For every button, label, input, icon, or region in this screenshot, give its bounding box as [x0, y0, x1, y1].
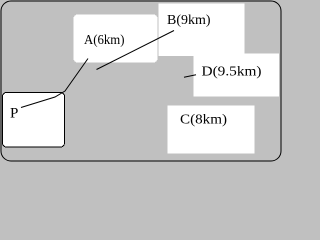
- svg-text:B(9km): B(9km): [167, 13, 211, 28]
- svg-text:C(8km): C(8km): [180, 113, 227, 128]
- svg-text:A(6km): A(6km): [84, 33, 125, 48]
- svg-text:D(9.5km): D(9.5km): [202, 65, 262, 80]
- svg-text:P: P: [10, 106, 18, 122]
